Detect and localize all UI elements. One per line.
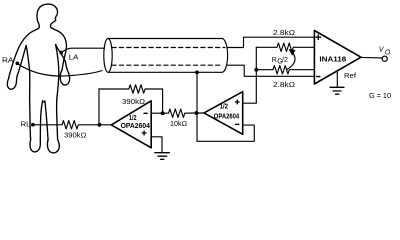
cable: left end ellipse xyxy=(104,39,112,73)
adjustment arrow across RG resistors xyxy=(287,52,296,70)
node: op1 - input / feedback xyxy=(161,111,165,115)
cable: bottom inner conductor (dashed) xyxy=(112,64,221,66)
right foot xyxy=(47,139,59,153)
svg-text:G = 10: G = 10 xyxy=(369,93,391,100)
torso right edge to right leg xyxy=(56,45,59,100)
svg-text:OPA2604: OPA2604 xyxy=(121,123,150,130)
resistor RG/2 top (2.8k): branch wire + zigzag xyxy=(256,43,314,51)
left leg inner xyxy=(40,101,42,140)
svg-text:R: R xyxy=(272,57,277,64)
op2 feedback loop bottom wire xyxy=(197,125,254,141)
electrode LA dot xyxy=(59,51,63,55)
body: neck + shoulders + torso + arms xyxy=(9,20,40,79)
op1 feedback drop to - input xyxy=(162,89,164,113)
op1 + input wire to ground xyxy=(151,137,162,153)
wire: RG center tap vertical xyxy=(243,47,257,103)
op2 - sign xyxy=(235,124,240,125)
LA lead wire xyxy=(61,48,104,52)
INA118 + sign xyxy=(316,34,322,40)
INA118 Ref pin stem xyxy=(336,72,338,88)
svg-text:RA: RA xyxy=(2,58,14,65)
arrowhead of RG adjust arrow xyxy=(289,50,295,55)
body: head xyxy=(37,4,58,20)
svg-text:390kΩ: 390kΩ xyxy=(64,133,86,140)
wire: bottom conductor stub to INA118 - input xyxy=(227,65,315,76)
op1 feedback riser xyxy=(98,89,100,125)
right hand loop xyxy=(60,62,69,85)
svg-text:10kΩ: 10kΩ xyxy=(170,121,187,128)
left arm inner xyxy=(17,46,26,76)
svg-text:LA: LA xyxy=(69,54,79,61)
electrode RL dot xyxy=(31,123,35,127)
svg-text:O: O xyxy=(385,49,391,56)
electrode RA dot xyxy=(15,61,19,65)
left foot xyxy=(30,140,40,152)
op1 + sign xyxy=(142,131,147,136)
op-amp signs xyxy=(142,34,322,135)
svg-text:1/2: 1/2 xyxy=(129,115,137,122)
svg-text:2.8kΩ: 2.8kΩ xyxy=(273,82,295,89)
svg-text:2.8kΩ: 2.8kΩ xyxy=(273,30,295,37)
right arm inner / torso right xyxy=(56,45,66,63)
ground (op1): bars xyxy=(155,153,170,160)
op1 - input wire + 10k zigzag to op2 output xyxy=(151,109,204,117)
op-amp U1 triangle (1/2 OPA2604, points left) xyxy=(111,101,151,148)
svg-text:RL: RL xyxy=(21,122,31,129)
svg-text:V: V xyxy=(379,47,385,54)
op2 + sign xyxy=(235,100,240,105)
wire: top conductor stub to INA118 + input xyxy=(227,37,314,47)
cable: top inner conductor (dashed) xyxy=(112,47,225,49)
INA118 - sign xyxy=(316,76,320,77)
INA118 output wire xyxy=(361,56,382,59)
svg-text:1/2: 1/2 xyxy=(220,104,228,111)
op1 feedback top wire + 390k zigzag xyxy=(99,85,163,93)
svg-text:Ref: Ref xyxy=(344,73,356,80)
op1 - sign xyxy=(144,113,148,114)
in-amp INA118 triangle xyxy=(314,31,361,85)
node: op2 output / shield / feedback xyxy=(195,111,199,115)
output terminal circle xyxy=(382,56,387,61)
cable: cylinder top line xyxy=(108,38,222,40)
op-amp U2 triangle (1/2 OPA2604, points left) xyxy=(204,92,243,135)
cable: cylinder bottom line xyxy=(108,71,222,73)
svg-text:OPA2604: OPA2604 xyxy=(214,114,239,121)
node: RG center tap xyxy=(254,68,258,72)
svg-text:390kΩ: 390kΩ xyxy=(122,99,145,106)
ground (INA118 Ref): bars xyxy=(330,87,344,94)
crotch xyxy=(43,101,45,102)
left hand loop xyxy=(7,76,17,90)
resistor RG/2 bottom (2.8k): branch wire + zigzag xyxy=(256,66,314,74)
RA lead wire xyxy=(17,64,102,77)
node: op1 output / RL xyxy=(97,123,101,127)
right leg inner xyxy=(45,101,48,140)
RL lead wire + resistor 390k zigzag xyxy=(34,121,111,129)
cable: right end arc xyxy=(222,39,228,73)
node: shield tap on cable xyxy=(195,70,199,74)
right leg outer xyxy=(57,99,58,139)
left leg outer xyxy=(30,97,31,140)
svg-text:/2: /2 xyxy=(282,57,288,64)
svg-text:INA118: INA118 xyxy=(319,57,346,64)
neck right + right shoulder + right arm outer xyxy=(50,21,66,71)
torso left edge down to left leg xyxy=(26,46,30,98)
shield junction vertical wire (cable shield to op2 output node, down to feedback loop) xyxy=(196,72,198,141)
